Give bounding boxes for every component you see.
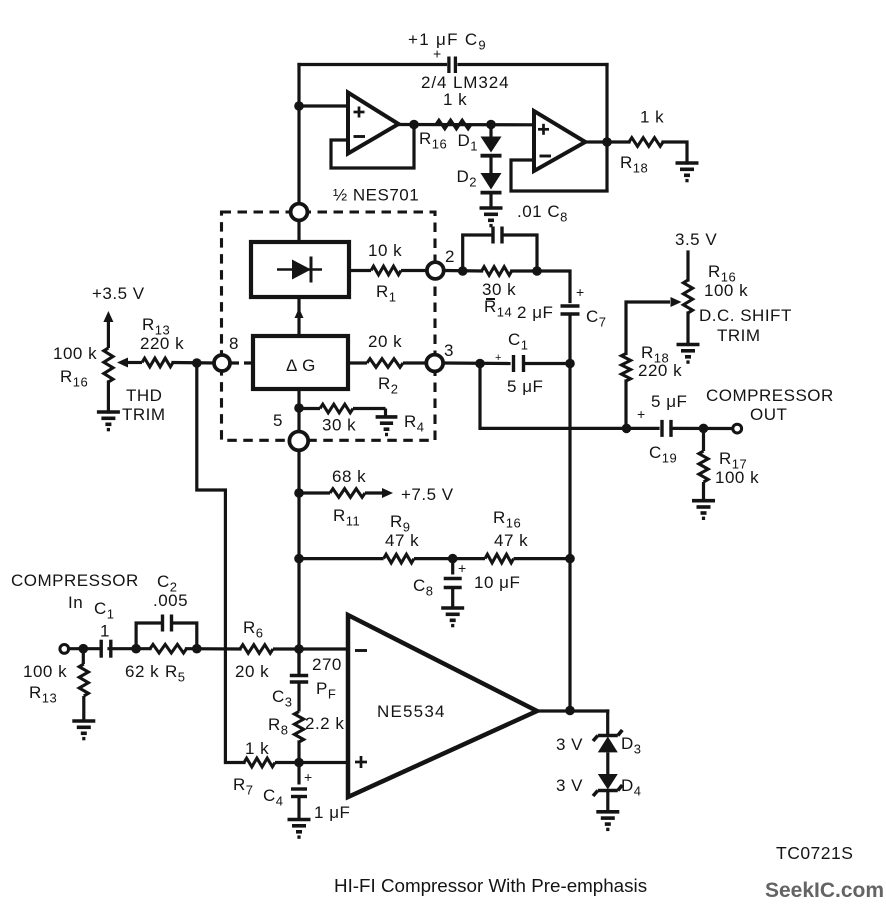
node C1 left [475,359,485,369]
op-amp U2 (2/4 LM324) [534,111,585,171]
wire THD junction down to R7 [197,363,244,763]
svg-text:2: 2 [445,247,455,266]
svg-text:1 μF: 1 μF [314,803,350,822]
op-amp U1 (1/2 LM324) [348,93,399,154]
svg-text:3 V: 3 V [556,735,583,754]
resistor R16 47k [485,554,570,563]
svg-text:THD: THD [126,386,162,405]
svg-text:3 V: 3 V [556,776,583,795]
svg-text:220 k: 220 k [140,334,184,353]
svg-text:30 k: 30 k [322,416,356,435]
node R5 right [192,644,202,654]
wire R5 to R6 [187,647,241,650]
node THD junction [192,358,202,368]
wire right vertical to U2 output [605,65,608,191]
ground R4 [376,417,398,435]
node pin top of NES701 [291,204,308,221]
wire U2 feedback loop (C8 .01) [511,160,607,191]
capacitor C19 5uF [662,420,671,437]
ground THD pot [97,412,120,430]
svg-text:5 μF: 5 μF [651,392,687,411]
capacitor C1 5uF [514,355,524,372]
svg-text:NE5534: NE5534 [377,702,446,721]
node R17 top [699,424,709,434]
svg-text:TRIM: TRIM [122,405,166,424]
zener diode D4 [593,774,622,812]
resistor R1 10k [349,266,426,275]
wire left vertical bus top [297,65,300,203]
wire R13 to pin 8 [173,361,213,365]
node COMPRESSOR OUT terminal [733,424,742,433]
resistor R13 100k input [79,649,88,721]
svg-text:Δ G: Δ G [286,356,316,375]
ground D4 [596,812,619,830]
wire NE5534 output [537,709,608,712]
wire 3.5V to DC pot [686,252,689,280]
svg-text:10 μF: 10 μF [474,573,520,592]
ground R13 input [72,721,95,739]
wire input terminal to C1 [69,647,102,650]
wire +3.5V arrow up from pot R16 [103,311,113,348]
gain cell delta-G box [253,336,348,389]
svg-text:20 k: 20 k [368,332,402,351]
wire bus into diode box [297,222,300,243]
wire pin3 to C1 [444,361,509,365]
resistor R13 220k [142,358,173,367]
node R9 row left [294,554,304,564]
svg-text:+: + [637,406,645,422]
wire output down to D3 [606,711,609,733]
svg-text:47 k: 47 k [494,531,528,550]
resistor R18 220k [621,354,630,382]
svg-text:1 k: 1 k [245,739,269,758]
capacitor C9 [449,57,456,74]
svg-text:HI-FI Compressor With Pre-emph: HI-FI Compressor With Pre-emphasis [334,875,647,896]
diode D1 [481,125,502,156]
svg-text:5: 5 [273,411,283,430]
diode symbol inside block [277,257,322,283]
capacitor C1 input [101,640,111,658]
wire C1 to R5 [109,647,150,650]
wire pin8 to delta-G box [231,361,253,364]
zener diode D3 [593,730,622,774]
node D1 top junction [486,120,496,130]
node R18 bottom [622,424,632,434]
capacitor C4 1uF [291,763,307,820]
node U2 output [602,137,612,147]
svg-text:D.C. SHIFT: D.C. SHIFT [699,306,792,325]
svg-text:220 k: 220 k [638,361,682,380]
wire C1 left down to output row [480,364,658,429]
node NE5534 output junction [565,706,575,716]
svg-text:1 k: 1 k [443,90,467,109]
resistor R11 68k with +7.5V arrow [299,488,393,498]
resistor R7 1k [244,758,348,767]
wiper arrow of DC pot [626,297,682,307]
svg-text:.005: .005 [153,591,188,610]
wiper arrow of THD pot [117,358,142,368]
svg-text:+: + [458,560,466,576]
wire DC pot to ground [686,313,689,345]
wire C9 loop top-left [299,63,446,66]
wire R8 to plus row [297,742,300,763]
svg-text:270: 270 [312,655,342,674]
node feedback line R16 junction [565,554,575,564]
svg-text:68 k: 68 k [332,467,366,486]
svg-text:100 k: 100 k [715,468,759,487]
svg-text:SeekIC.com: SeekIC.com [765,879,884,902]
node pin5 junction [294,403,304,413]
ground right of R18 [676,163,699,181]
svg-text:100 k: 100 k [704,281,748,300]
ground DC pot [677,345,700,363]
svg-text:20 k: 20 k [235,662,269,681]
wire U1 +input [299,104,348,107]
svg-text:100 k: 100 k [23,662,67,681]
node C1 right [565,359,575,369]
node C8 junction [448,554,458,564]
node R11 junction [294,488,304,498]
resistor R4 30k [299,404,386,417]
svg-text:8: 8 [229,334,239,353]
ground C4 [288,820,311,838]
node U1 +input tap [294,101,304,111]
capacitor C8 10uF [444,559,462,608]
ground below D2 [480,208,503,226]
node pin 3 [426,355,443,372]
wire C9 loop top-right [459,63,607,66]
node U1 output [409,120,419,130]
diode D2 [481,156,502,208]
svg-text:+7.5 V: +7.5 V [401,485,454,504]
node COMPRESSOR In terminal [60,645,69,654]
capacitor C3 270pF [290,649,308,712]
wire pot to ground [107,382,110,412]
diode block (rectifier) of NES701 [251,242,349,297]
node minus input junction [294,644,304,654]
node C2/R5 left [131,644,141,654]
wire R14 node to C7 [537,271,570,302]
wire C7 down long vertical to NE5534 output [568,315,571,711]
wire wiper down to R18 [624,302,627,354]
wire U2 output [585,140,629,143]
svg-text:2 μF: 2 μF [517,303,553,322]
resistor R14 30k [482,267,512,276]
svg-text:10 k: 10 k [368,241,402,260]
node plus input junction [294,758,304,768]
svg-text:+: + [433,46,441,62]
wire delta-G box to pin5 circle [297,389,300,431]
ground C8 [441,608,464,626]
svg-text:+: + [495,352,501,364]
svg-text:1: 1 [100,622,110,641]
svg-text:+3.5 V: +3.5 V [92,284,145,303]
svg-text:+: + [576,284,584,300]
resistor R2 20k [348,359,425,368]
wire R18 to output row [624,381,627,428]
svg-text:5 μF: 5 μF [507,377,543,396]
wire R14 right [512,269,537,272]
resistor R9 47k [299,554,485,563]
wire C19 to output terminal [671,427,733,430]
svg-text:OUT: OUT [750,405,787,424]
wire U1 output to U2 +input [399,123,535,127]
wire C1 to feedback line [524,362,570,365]
node pin 8 [214,355,230,371]
svg-text:3: 3 [444,341,454,360]
capacitor parallel with R14 [463,227,537,272]
potentiometer R16 100k THD [104,348,113,382]
svg-text:+: + [304,769,312,785]
resistor R16 1k [436,120,471,129]
svg-text:3.5 V: 3.5 V [675,230,717,249]
svg-text:COMPRESSOR: COMPRESSOR [11,571,139,590]
svg-text:2.2 k: 2.2 k [305,714,344,733]
wire bus diode box to delta-G box with up arrow [295,297,304,336]
capacitor C7 2uF [561,306,580,314]
wire pin2 to R14 [445,269,482,273]
ground R17 [692,501,715,519]
svg-text:½ NES701: ½ NES701 [333,186,419,205]
resistor R6 20k [240,645,348,654]
svg-text:TRIM: TRIM [717,326,761,345]
svg-text:62 k: 62 k [125,662,159,681]
resistor R5 62k [150,644,187,653]
resistor R17 100k [699,428,708,500]
wire U1 feedback loop [331,125,414,169]
IC U3 NES701 dashed outline [222,212,436,440]
potentiometer R16 100k DC shift [683,280,692,313]
resistor R8 2.2k [294,712,303,743]
node pin 2 [427,262,444,279]
node pin 5 circle [289,432,308,451]
label R14 (with bar) [486,298,495,300]
wire R18 to ground [663,142,687,163]
svg-text:100 k: 100 k [53,344,97,363]
node R14 right [532,266,542,276]
svg-text:1 k: 1 k [640,108,664,127]
svg-text:COMPRESSOR: COMPRESSOR [706,386,834,405]
svg-text:47 k: 47 k [385,531,419,550]
node R13 input junction [79,644,89,654]
svg-text:TC0721S: TC0721S [776,843,853,863]
op-amp NE5534 [348,615,537,797]
capacitor C2 .005 parallel with R5 [136,615,197,649]
node R14 left [458,266,468,276]
resistor R18 1k [629,138,663,147]
wire main bus below NES701 [297,450,300,673]
svg-text:In: In [68,593,83,612]
